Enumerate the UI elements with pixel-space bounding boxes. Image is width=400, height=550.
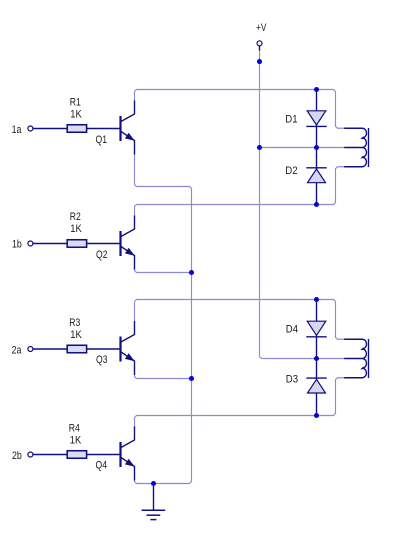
resistor R2 1K xyxy=(67,240,86,248)
transistor Q1 xyxy=(121,101,135,155)
wire diode string 1 vertical xyxy=(316,90,318,205)
wire +V terminal pin xyxy=(259,46,261,51)
terminal 2b xyxy=(28,452,33,457)
diode D2 xyxy=(306,168,326,183)
resistor R3 1K xyxy=(67,345,86,353)
svg-text:2b: 2b xyxy=(12,450,22,462)
diode D1 xyxy=(306,111,326,127)
inductor L1 winding xyxy=(344,128,368,167)
terminal 1b xyxy=(28,241,33,246)
svg-text:1b: 1b xyxy=(12,238,22,250)
svg-text:1K: 1K xyxy=(70,329,82,341)
svg-text:D4: D4 xyxy=(286,323,298,335)
inductor L2 winding xyxy=(344,339,368,378)
svg-text:1K: 1K xyxy=(70,108,82,120)
node junction on +V below terminal xyxy=(257,59,262,64)
wire input 1b to R2 to Q2 base xyxy=(33,243,120,245)
node junction D3 bottom / Q4 collector xyxy=(314,413,319,418)
wire input 2b to R4 to Q4 base xyxy=(33,454,120,456)
wire diode string 2 vertical xyxy=(316,300,318,416)
svg-text:1a: 1a xyxy=(12,124,22,136)
wire input 2a to R3 to Q3 base xyxy=(33,348,120,350)
svg-text:1K: 1K xyxy=(70,434,82,446)
transistor Q3 xyxy=(121,321,135,375)
svg-text:Q2: Q2 xyxy=(96,249,108,261)
svg-text:+V: +V xyxy=(256,22,267,34)
wire input 1a to R1 to Q1 base xyxy=(33,128,120,130)
diode D4 xyxy=(306,321,326,337)
terminal 1a xyxy=(28,126,33,131)
svg-text:R4: R4 xyxy=(69,423,80,435)
svg-text:R3: R3 xyxy=(69,317,80,329)
terminal 2a xyxy=(28,347,33,352)
wire common emitter bus from Q1 down to ground run xyxy=(135,155,192,484)
svg-text:R2: R2 xyxy=(70,211,81,223)
wire Q1 collector to D1 top and L1 top xyxy=(135,90,345,129)
node junction Q2 emitter on bus xyxy=(189,270,194,275)
wire Q4 emitter to ground node xyxy=(135,481,154,484)
wire Q2 emitter to bus xyxy=(135,270,192,273)
svg-text:D2: D2 xyxy=(285,165,297,177)
resistor R1 1K xyxy=(67,125,86,133)
node junction D4-D3 / L2 center xyxy=(314,356,319,361)
wire Q3 collector to D4 top and L2 top xyxy=(135,300,345,340)
svg-text:Q3: Q3 xyxy=(96,354,108,366)
node junction Q3 emitter on bus xyxy=(189,376,194,381)
node junction D1-D2 / L1 center xyxy=(314,145,319,150)
node junction D1 top / Q1 collector xyxy=(314,87,319,92)
svg-text:1K: 1K xyxy=(70,223,82,235)
terminal +V xyxy=(257,41,262,46)
svg-text:R1: R1 xyxy=(70,97,81,109)
svg-text:Q1: Q1 xyxy=(96,134,108,146)
wire Q2 collector to D2 bottom and L1 bottom xyxy=(135,167,345,218)
wire Q3 emitter to bus xyxy=(135,375,192,379)
svg-text:Q4: Q4 xyxy=(96,460,108,472)
svg-text:2a: 2a xyxy=(12,344,22,356)
ground xyxy=(142,486,166,520)
node junction ground tap xyxy=(151,481,156,486)
transistor Q4 xyxy=(121,427,135,481)
transistor Q2 xyxy=(121,216,135,270)
node junction D2 bottom / Q2 collector xyxy=(314,202,319,207)
diode D3 xyxy=(306,378,326,393)
svg-text:D3: D3 xyxy=(286,373,298,385)
node junction +V to L1 center tap xyxy=(257,145,262,150)
svg-text:D1: D1 xyxy=(285,114,297,126)
node junction D4 top / Q3 collector xyxy=(314,297,319,302)
wire +V vertical feed to winding center taps xyxy=(260,50,345,359)
wire Q4 collector to D3 bottom and L2 bottom xyxy=(135,378,345,429)
resistor R4 1K xyxy=(67,451,86,459)
wire L1 center tap xyxy=(260,147,345,149)
